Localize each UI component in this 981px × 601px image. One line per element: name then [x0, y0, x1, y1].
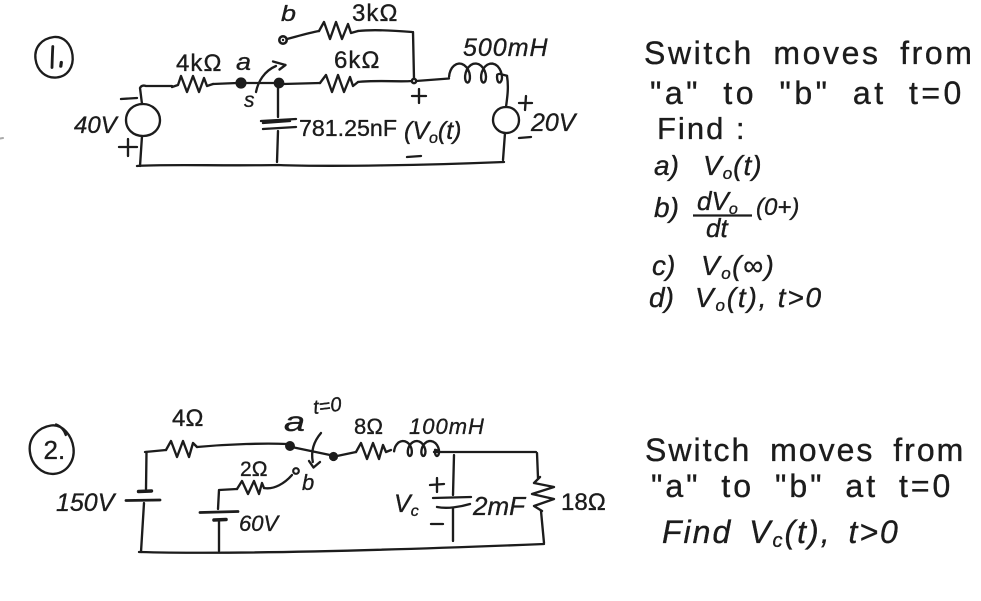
- svg-text:60V: 60V: [239, 511, 280, 536]
- svg-text:b): b): [654, 192, 679, 223]
- wire R2 to top-right corner: [358, 30, 412, 32]
- wire V3 top up: [145, 452, 148, 489]
- V2 minus sign: [519, 137, 531, 138]
- voltage source V1 40V circle: [126, 104, 160, 136]
- wire pole2 to R6: [337, 452, 356, 456]
- node switch pole: [275, 79, 283, 87]
- svg-text:Vo(∞): Vo(∞): [701, 250, 775, 283]
- resistor R4 4ohm: [166, 441, 197, 457]
- wire b to R2: [287, 31, 319, 39]
- svg-text:d): d): [649, 282, 674, 313]
- svg-text:8Ω: 8Ω: [354, 414, 383, 439]
- svg-text:3kΩ: 3kΩ: [352, 0, 399, 27]
- label Vo minus: [407, 156, 421, 157]
- svg-text:Vo(t): Vo(t): [703, 150, 763, 183]
- svg-text:Find :: Find :: [657, 111, 747, 146]
- V2 plus sign: [519, 96, 532, 110]
- wire cap branch top: [453, 455, 454, 495]
- svg-text:2Ω: 2Ω: [240, 458, 268, 481]
- wire 2ohm to b2: [264, 475, 292, 488]
- svg-text:150V: 150V: [56, 489, 117, 517]
- capacitor C1 plates: [261, 119, 296, 129]
- wire R7 down: [541, 511, 544, 543]
- svg-text:4Ω: 4Ω: [172, 405, 204, 432]
- problem number 1 circle: [35, 37, 72, 78]
- wire R1 to node a: [213, 83, 237, 84]
- text block problem 2: [645, 432, 965, 552]
- node b2 open dot: [293, 468, 299, 474]
- resistor R7 18ohm: [532, 477, 554, 511]
- svg-text:"a" to "b" at t=0: "a" to "b" at t=0: [651, 468, 953, 504]
- svg-text:20V: 20V: [530, 109, 578, 137]
- resistor R3 6k: [320, 75, 358, 92]
- svg-text:Switch moves from: Switch moves from: [645, 432, 965, 468]
- svg-text:2.: 2.: [44, 435, 66, 465]
- inductor L1 500mH: [449, 64, 507, 83]
- wire C2 down: [452, 509, 454, 541]
- node b open dot: [279, 36, 286, 43]
- svg-text:18Ω: 18Ω: [561, 489, 606, 516]
- wire R5 left down: [218, 489, 237, 509]
- node a: [237, 79, 246, 88]
- resistor R6 8ohm: [356, 443, 391, 459]
- label Vo plus: [412, 89, 426, 103]
- V1 minus sign: [121, 98, 137, 99]
- svg-text:b: b: [281, 1, 296, 26]
- inductor L2 100mH: [394, 441, 439, 456]
- switch S1 arc: [256, 66, 276, 92]
- switch S1 arrowhead: [273, 62, 286, 70]
- resistor R1 4k: [172, 76, 213, 92]
- text block problem 1: [644, 35, 974, 315]
- wire L1 to V2: [506, 76, 508, 107]
- switch S2 blade a to pole: [294, 448, 330, 456]
- svg-text:100mH: 100mH: [409, 414, 485, 439]
- svg-text:2mF: 2mF: [472, 491, 527, 521]
- wire V1 top to R1: [140, 86, 172, 104]
- wire V4 down: [218, 521, 220, 551]
- svg-text:Vo(t), t>0: Vo(t), t>0: [695, 282, 823, 315]
- svg-text:4kΩ: 4kΩ: [176, 50, 223, 77]
- svg-text:a: a: [236, 49, 251, 76]
- battery V4 60V plates: [200, 512, 238, 513]
- wire node a to switch pole: [245, 82, 275, 84]
- svg-text:781.25nF: 781.25nF: [299, 115, 397, 141]
- svg-text:"a" to "b" at t=0: "a" to "b" at t=0: [650, 75, 965, 111]
- wire right corner down to R7: [537, 453, 538, 478]
- wire C1 to bottom: [277, 131, 278, 162]
- wire V1 bottom: [140, 136, 142, 166]
- svg-text:a): a): [654, 150, 679, 181]
- node switch pole 2: [330, 453, 337, 460]
- svg-text:s: s: [244, 89, 255, 112]
- switch S2 arrowhead: [309, 461, 320, 468]
- svg-text:40V: 40V: [74, 112, 119, 139]
- resistor R2 3k: [319, 22, 358, 39]
- svg-text:dt: dt: [706, 213, 729, 243]
- svg-text:Switch moves from: Switch moves from: [644, 35, 974, 71]
- node a2: [286, 442, 294, 450]
- wire bottom rail 1: [137, 162, 504, 166]
- svg-text:b: b: [302, 470, 314, 495]
- wire switch pole down to C1: [277, 87, 279, 117]
- switch S2 arc: [312, 433, 321, 462]
- resistor R5 2ohm: [237, 481, 264, 494]
- svg-text:a: a: [284, 406, 305, 437]
- capacitor C2 plates: [433, 497, 471, 508]
- svg-text:c): c): [652, 250, 675, 281]
- battery V3 150V plates: [139, 489, 152, 493]
- wire R3 to junction: [358, 81, 412, 82]
- label Vc minus: [431, 523, 443, 525]
- voltage source V2 20V: [493, 107, 519, 133]
- label Vc plus: [430, 478, 444, 492]
- svg-text:6kΩ: 6kΩ: [334, 47, 381, 74]
- stray pen mark left edge: [0, 137, 3, 140]
- node junction: [412, 79, 416, 83]
- wire R4 to node a2: [197, 444, 287, 447]
- wire bottom rail 2: [139, 544, 544, 553]
- svg-text:500mH: 500mH: [463, 34, 549, 62]
- wire junction to L1: [416, 79, 449, 82]
- wire top-left corner to R4: [145, 450, 166, 452]
- V1 plus sign: [119, 139, 137, 156]
- svg-text:t=0: t=0: [312, 394, 343, 419]
- wire vertical down from 3k branch: [413, 32, 414, 79]
- svg-text:(0+): (0+): [756, 194, 799, 221]
- wire L2 to right corner: [434, 451, 536, 453]
- wire switch pole to R3: [283, 83, 320, 84]
- wire V3 bottom: [141, 503, 144, 552]
- wire V2 to bottom: [503, 133, 505, 160]
- problem number 2 circle: [30, 425, 74, 474]
